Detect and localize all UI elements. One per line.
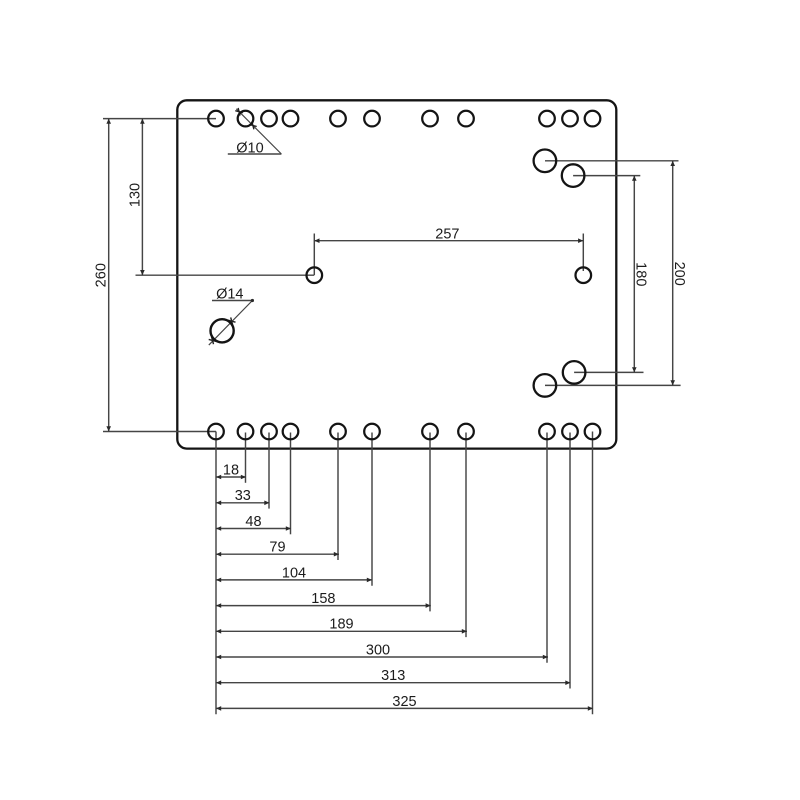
svg-text:180: 180 [633,262,649,286]
svg-text:200: 200 [671,262,687,286]
svg-text:313: 313 [381,668,405,684]
svg-text:189: 189 [329,617,353,633]
svg-text:Ø14: Ø14 [216,287,243,303]
svg-text:300: 300 [366,642,390,658]
svg-text:48: 48 [245,514,261,530]
svg-text:104: 104 [282,565,306,581]
svg-text:158: 158 [311,591,335,607]
svg-text:Ø10: Ø10 [236,141,263,157]
svg-text:33: 33 [235,488,251,504]
svg-text:260: 260 [94,263,110,287]
svg-text:79: 79 [269,540,285,556]
svg-text:130: 130 [128,183,144,207]
svg-text:325: 325 [392,694,416,710]
svg-text:18: 18 [223,462,239,478]
svg-text:257: 257 [435,227,459,243]
